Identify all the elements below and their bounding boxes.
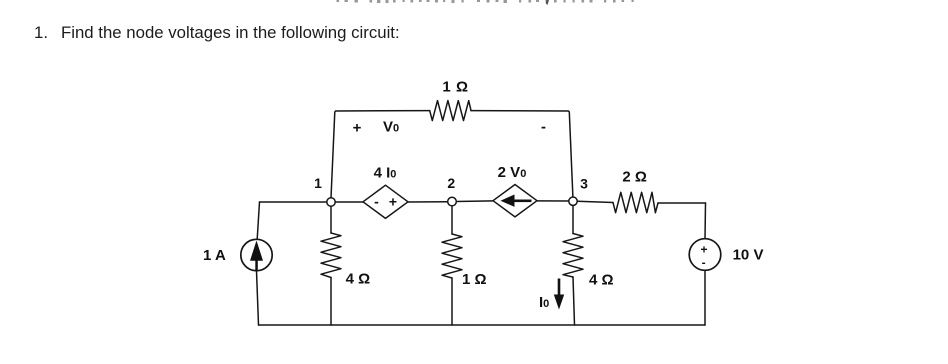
svg-text:-: - <box>374 194 379 210</box>
svg-text:3: 3 <box>580 176 588 192</box>
svg-text:V0: V0 <box>383 119 399 136</box>
svg-text:1 Ω: 1 Ω <box>462 271 487 288</box>
svg-text:+: + <box>353 120 362 137</box>
svg-text:2 V0: 2 V0 <box>498 164 527 181</box>
svg-text:4 Ω: 4 Ω <box>589 272 614 289</box>
svg-text:I0: I0 <box>539 294 549 311</box>
svg-text:+: + <box>700 243 707 257</box>
svg-text:2 Ω: 2 Ω <box>622 169 647 186</box>
svg-text:1 A: 1 A <box>203 247 226 264</box>
svg-text:-: - <box>702 256 706 270</box>
svg-text:2: 2 <box>447 175 455 191</box>
svg-text:-: - <box>541 119 546 136</box>
svg-text:+: + <box>389 194 397 210</box>
svg-text:10 V: 10 V <box>733 247 764 264</box>
svg-text:4 I0: 4 I0 <box>374 164 397 181</box>
svg-text:1: 1 <box>314 175 322 191</box>
svg-text:4 Ω: 4 Ω <box>346 271 371 288</box>
svg-text:1 Ω: 1 Ω <box>442 79 468 96</box>
